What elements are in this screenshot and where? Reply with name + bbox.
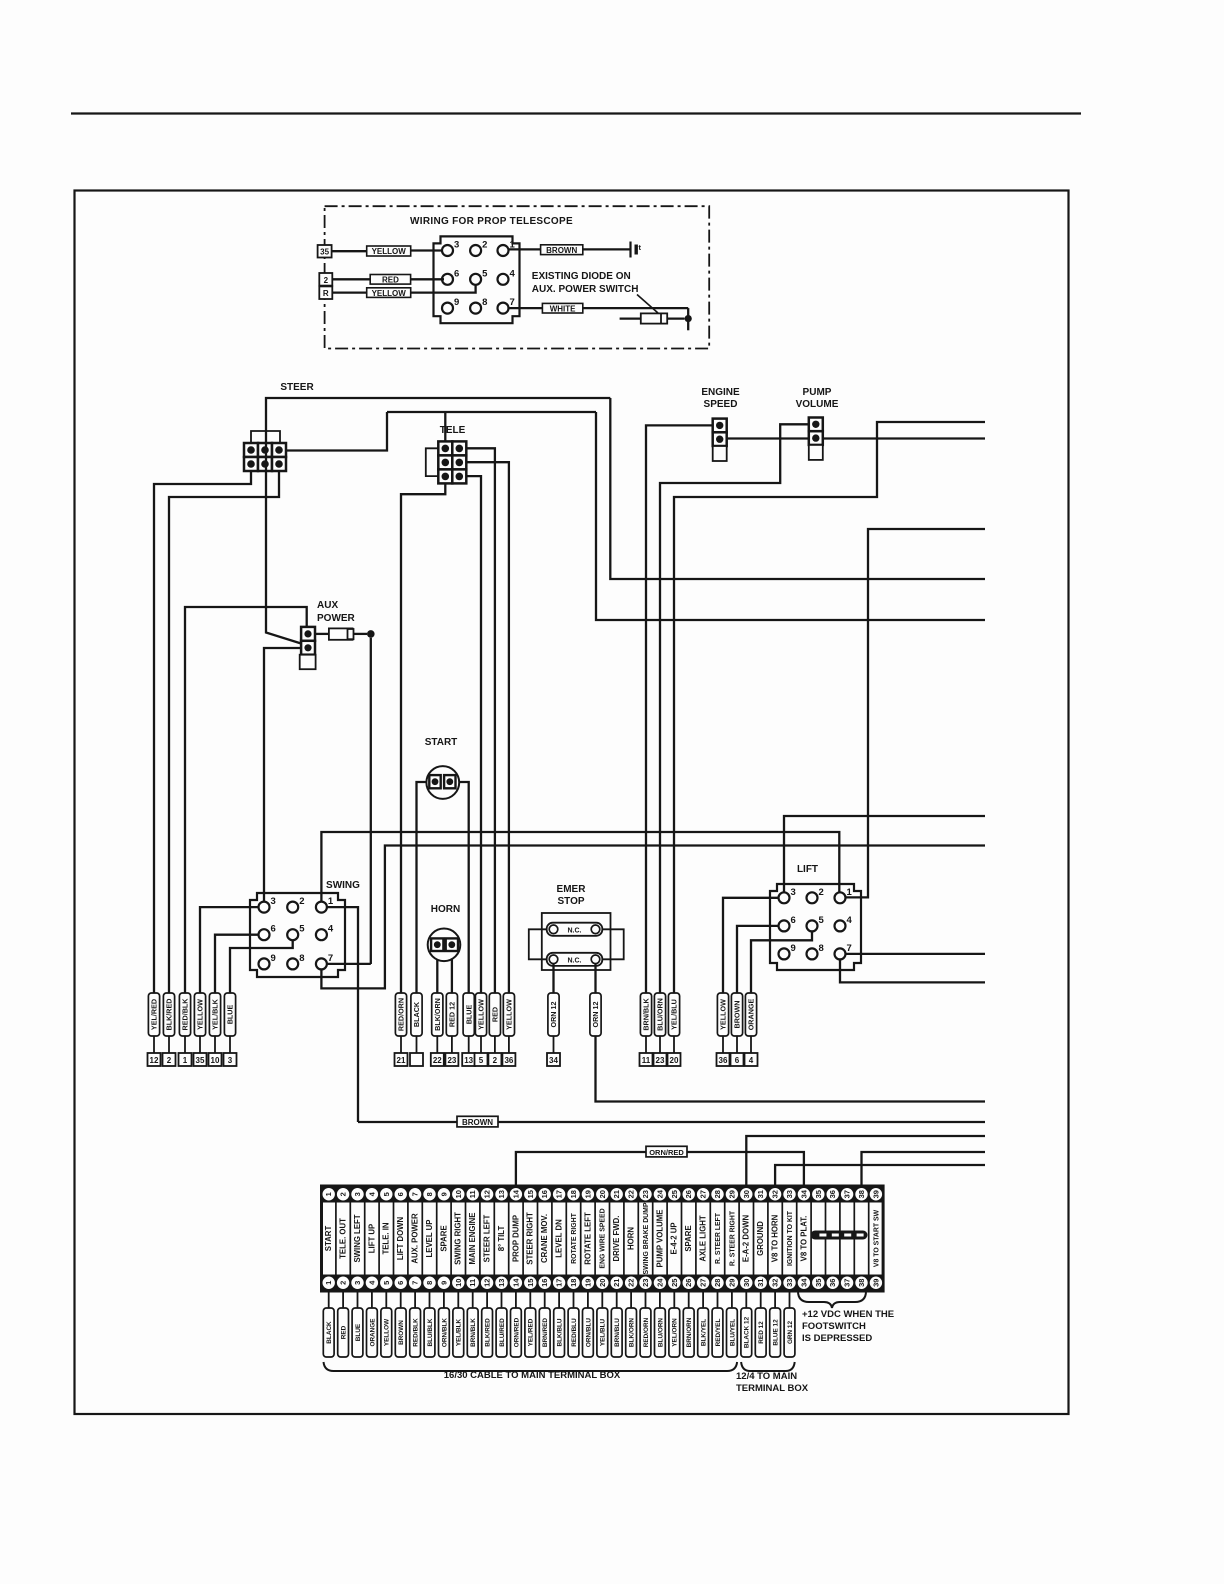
svg-text:22: 22	[433, 1056, 442, 1065]
svg-text:PROP DUMP: PROP DUMP	[511, 1215, 520, 1262]
svg-text:YELLOW: YELLOW	[196, 999, 205, 1030]
cable lead BLK/YEL (terminal 27)	[702, 1291, 704, 1308]
svg-text:33: 33	[785, 1279, 794, 1287]
svg-text:1: 1	[847, 887, 853, 898]
diode D1 (existing diode on aux power switch)	[620, 317, 685, 319]
cable lead BRN/RED (terminal 16)	[544, 1291, 546, 1308]
wire: terminal R to YELLOW label to pin 5	[332, 291, 366, 293]
svg-text:SPARE: SPARE	[684, 1225, 693, 1251]
svg-text:START: START	[324, 1226, 333, 1252]
svg-text:RED/BLK: RED/BLK	[181, 998, 190, 1031]
cable lead BLU/YEL (terminal 29)	[731, 1291, 733, 1308]
svg-text:SWING RIGHT: SWING RIGHT	[454, 1212, 463, 1265]
svg-text:BLK/RED: BLK/RED	[165, 999, 174, 1031]
jumper bracket over steer terminals	[251, 431, 280, 444]
wire label YELLOW	[367, 246, 411, 256]
cable lead YEL/RED (terminal 15)	[529, 1291, 531, 1308]
svg-text:CRANE MOV.: CRANE MOV.	[540, 1214, 549, 1263]
svg-text:ORN 12: ORN 12	[591, 1002, 600, 1028]
svg-text:13: 13	[464, 1056, 473, 1065]
wire: steer right terminal to riser x387 and top wire y412	[286, 412, 387, 451]
svg-text:11: 11	[468, 1190, 477, 1198]
cable lead BROWN (terminal 6)	[400, 1291, 402, 1308]
cable lead BLK/BLU (terminal 17)	[558, 1291, 560, 1308]
svg-text:21: 21	[612, 1190, 621, 1198]
wire: YEL/BLU drop up to y497, right, up at x877, right to edge	[674, 422, 985, 993]
svg-text:BLUE 12: BLUE 12	[773, 1319, 780, 1346]
svg-text:YEL/ORN: YEL/ORN	[672, 1318, 679, 1347]
svg-text:29: 29	[727, 1190, 736, 1198]
svg-text:BLU/ORN: BLU/ORN	[657, 1318, 664, 1347]
svg-text:ENG WIRE SPEED: ENG WIRE SPEED	[600, 1208, 607, 1268]
cable lead BLUE 12 (terminal 32)	[774, 1291, 776, 1308]
mid label RED at x494	[489, 993, 500, 1036]
cable lead GRN 12 (terminal 33)	[789, 1291, 791, 1308]
wire: steer bottom-right terminal down-left to BLK/RED drop	[169, 471, 279, 993]
brace: 16/30 cable group	[324, 1362, 738, 1371]
svg-text:RED: RED	[491, 1007, 500, 1022]
svg-text:BRN/BLK: BRN/BLK	[642, 998, 651, 1031]
svg-text:19: 19	[583, 1190, 592, 1198]
mid label BLACK at x416	[411, 993, 422, 1036]
svg-text:34: 34	[799, 1278, 808, 1287]
svg-text:14: 14	[511, 1189, 520, 1198]
wire BROWN feed y1122 to edge	[358, 1121, 985, 1123]
wire: lift pin 7 right to edge	[846, 953, 986, 955]
svg-text:35: 35	[814, 1190, 823, 1198]
svg-text:22: 22	[627, 1279, 636, 1287]
svg-text:IS DEPRESSED: IS DEPRESSED	[802, 1333, 872, 1344]
svg-text:20: 20	[598, 1190, 607, 1198]
svg-text:7: 7	[411, 1192, 420, 1196]
svg-text:RED/ORN: RED/ORN	[397, 998, 406, 1031]
svg-text:10: 10	[211, 1056, 220, 1065]
svg-text:7: 7	[510, 297, 515, 308]
svg-text:12: 12	[483, 1190, 492, 1198]
svg-text:E-A-2 DOWN: E-A-2 DOWN	[742, 1215, 751, 1263]
svg-text:AXLE LIGHT: AXLE LIGHT	[699, 1215, 708, 1262]
svg-text:AUX: AUX	[317, 600, 338, 611]
svg-text:GROUND: GROUND	[756, 1221, 765, 1256]
svg-text:2: 2	[324, 276, 329, 285]
svg-text:12: 12	[150, 1056, 159, 1065]
svg-text:BROWN: BROWN	[398, 1320, 405, 1345]
svg-text:31: 31	[756, 1279, 765, 1287]
svg-text:22: 22	[627, 1190, 636, 1198]
svg-text:STEER: STEER	[280, 382, 314, 393]
cable lead ORN/RED (terminal 14)	[515, 1291, 517, 1308]
cable lead ORN/BLU (terminal 19)	[587, 1291, 589, 1308]
svg-text:16/30 CABLE TO MAIN TERMINAL B: 16/30 CABLE TO MAIN TERMINAL BOX	[444, 1370, 621, 1381]
svg-text:23: 23	[641, 1190, 650, 1198]
svg-text:30: 30	[742, 1190, 751, 1198]
cable lead ORANGE (terminal 4)	[371, 1291, 373, 1308]
wire: y412 across to x596	[387, 411, 596, 413]
svg-text:7: 7	[411, 1281, 420, 1285]
svg-text:YELLOW: YELLOW	[505, 999, 514, 1030]
svg-text:18: 18	[569, 1190, 578, 1198]
svg-text:1: 1	[183, 1056, 188, 1065]
svg-text:TELE. OUT: TELE. OUT	[339, 1218, 348, 1259]
svg-text:BROWN: BROWN	[462, 1118, 493, 1127]
svg-text:BLACK: BLACK	[326, 1321, 333, 1344]
svg-text:8: 8	[482, 297, 487, 308]
svg-text:RED: RED	[382, 276, 399, 285]
svg-text:39: 39	[871, 1190, 880, 1198]
emer label ORN 12 at x595	[590, 993, 601, 1036]
svg-text:R. STEER LEFT: R. STEER LEFT	[715, 1212, 722, 1264]
steer/swing label YELLOW at x200	[194, 993, 205, 1036]
wire label WHITE	[542, 303, 582, 313]
lift label BROWN at x737	[731, 993, 742, 1036]
svg-text:6: 6	[396, 1281, 405, 1285]
swing connector J2	[250, 893, 345, 977]
jumper bar across terminals 35-38	[811, 1231, 868, 1240]
svg-text:8° TILT: 8° TILT	[497, 1226, 506, 1252]
wire: swing pin 3 left to YELLOW drop	[200, 907, 259, 993]
terminal 2	[319, 273, 332, 286]
wire: swing pin 5 down-left to BLUE drop	[230, 940, 293, 993]
svg-text:ROTATE RIGHT: ROTATE RIGHT	[571, 1212, 578, 1263]
svg-text:AUX. POWER: AUX. POWER	[411, 1213, 420, 1264]
wire: tele R3 right then down to YELLOW drop	[466, 476, 481, 993]
svg-text:1: 1	[328, 896, 334, 907]
svg-text:RED 12: RED 12	[758, 1321, 765, 1344]
wire: pin 1 to BROWN label to ground	[509, 248, 541, 250]
emer stop N.C. contact 1	[547, 923, 603, 936]
wire: RED/BLK drop up to y607 right to aux power top terminal	[185, 607, 307, 993]
wire stub: y412 wire down to tele top	[444, 412, 446, 441]
svg-text:ORN/BLU: ORN/BLU	[585, 1318, 592, 1347]
pump volume switch PV1	[809, 418, 823, 432]
svg-text:SWING BRAKE DUMP: SWING BRAKE DUMP	[643, 1202, 650, 1274]
cable lead RED 12 (terminal 31)	[760, 1291, 762, 1308]
wire: emer stop lower-left contact down to ORN 12 label and terminal 34	[552, 964, 554, 993]
svg-text:2: 2	[819, 887, 824, 898]
svg-text:TELE: TELE	[440, 425, 466, 436]
cable lead BLU/RED (terminal 13)	[501, 1291, 503, 1308]
svg-text:BRN/BLU: BRN/BLU	[614, 1318, 621, 1347]
brace: 12/4 cable group	[741, 1362, 795, 1371]
svg-text:8: 8	[299, 953, 304, 964]
svg-text:BLU/RED: BLU/RED	[499, 1318, 506, 1347]
cable lead BRN/ORN (terminal 26)	[688, 1291, 690, 1308]
svg-text:POWER: POWER	[317, 613, 356, 624]
svg-text:3: 3	[271, 896, 276, 907]
steer/swing label RED/BLK at x185	[179, 993, 190, 1036]
svg-text:36: 36	[828, 1279, 837, 1287]
svg-text:6: 6	[396, 1192, 405, 1196]
svg-text:1: 1	[324, 1281, 333, 1285]
engine/pump label BLU/ORN at x660	[654, 993, 665, 1036]
svg-text:YEL/BLU: YEL/BLU	[600, 1318, 607, 1346]
svg-text:3: 3	[353, 1192, 362, 1196]
svg-text:9: 9	[454, 297, 459, 308]
cable lead BRN/BLK (terminal 11)	[472, 1291, 474, 1308]
cable lead RED/ORN (terminal 23)	[645, 1291, 647, 1308]
cable lead BLU/BLK (terminal 8)	[429, 1291, 431, 1308]
terminal strip TB1 (main)	[322, 1186, 884, 1291]
svg-text:YEL/RED: YEL/RED	[528, 1318, 535, 1346]
cable lead BLK/ORN (terminal 22)	[630, 1291, 632, 1308]
wire: terminal 35 to YELLOW label to pin 3	[332, 250, 367, 252]
svg-text:19: 19	[583, 1279, 592, 1287]
svg-text:RED/BLU: RED/BLU	[571, 1318, 578, 1347]
svg-text:R. STEER RIGHT: R. STEER RIGHT	[729, 1210, 736, 1266]
svg-text:6: 6	[735, 1056, 740, 1065]
svg-text:2: 2	[339, 1281, 348, 1285]
wire: swing pin 7 loop down-right-up joining long feed to edge	[321, 846, 985, 989]
svg-text:YEL/BLU: YEL/BLU	[670, 999, 679, 1030]
svg-text:2: 2	[493, 1056, 498, 1065]
terminal R	[319, 286, 332, 299]
wire label YELLOW (R)	[367, 288, 411, 298]
svg-text:V8 TO PLAT.: V8 TO PLAT.	[799, 1216, 808, 1262]
svg-text:34: 34	[549, 1056, 558, 1065]
svg-text:27: 27	[699, 1279, 708, 1287]
svg-text:ROTATE LEFT: ROTATE LEFT	[583, 1212, 592, 1265]
svg-text:BRN/ORN: BRN/ORN	[686, 1317, 693, 1347]
wire: lift pin 3 left to YELLOW drop	[723, 898, 778, 993]
fuse F1 on aux power	[315, 633, 329, 635]
svg-text:10: 10	[454, 1279, 463, 1287]
cable lead YEL/ORN (terminal 25)	[673, 1291, 675, 1308]
wire: swing pin 6 left to YEL/BLK drop	[215, 935, 259, 993]
svg-text:RED 12: RED 12	[448, 1002, 457, 1027]
svg-text:ORN/RED: ORN/RED	[513, 1317, 520, 1347]
svg-text:PUMP: PUMP	[803, 387, 832, 398]
wire: tele bracket down, left, down to RED/ORN drop	[401, 483, 445, 993]
engine/pump label YEL/BLU at x674	[668, 993, 679, 1036]
svg-text:9: 9	[439, 1281, 448, 1285]
svg-text:BLACK 12: BLACK 12	[744, 1316, 751, 1348]
svg-text:15: 15	[526, 1190, 535, 1198]
svg-text:YELLOW: YELLOW	[384, 1318, 391, 1346]
svg-text:BLU/YEL: BLU/YEL	[729, 1319, 736, 1346]
steer/swing label BLK/RED at x169	[163, 993, 174, 1036]
svg-text:BLK/ORN: BLK/ORN	[629, 1318, 636, 1347]
cable lead BLU/ORN (terminal 24)	[659, 1291, 661, 1308]
svg-text:YEL/BLK: YEL/BLK	[456, 1318, 463, 1346]
svg-text:BLUE: BLUE	[226, 1005, 235, 1025]
svg-text:10: 10	[454, 1190, 463, 1198]
svg-text:28: 28	[713, 1279, 722, 1287]
svg-text:STEER RIGHT: STEER RIGHT	[526, 1212, 535, 1265]
svg-text:27: 27	[699, 1190, 708, 1198]
svg-text:34: 34	[799, 1189, 808, 1198]
svg-text:START: START	[425, 737, 458, 748]
svg-text:V8 TO START SW: V8 TO START SW	[873, 1209, 880, 1267]
wire: swing pin 7 right to aux junction riser	[327, 963, 371, 965]
svg-text:32: 32	[771, 1279, 780, 1287]
svg-text:SPARE: SPARE	[439, 1225, 448, 1251]
mid label BLK/ORN at x437	[432, 993, 443, 1036]
svg-text:E-4-2 UP: E-4-2 UP	[670, 1222, 679, 1254]
wire: steer mid terminal up, across top to x610	[266, 398, 610, 443]
svg-text:BLU/BLK: BLU/BLK	[427, 1318, 434, 1346]
connector U1 (prop telescope switch)	[434, 236, 520, 323]
svg-text:RED: RED	[341, 1325, 348, 1339]
wire: lift pin 5 down-left to ORANGE drop	[751, 931, 812, 993]
svg-text:15: 15	[526, 1279, 535, 1287]
svg-text:30: 30	[742, 1279, 751, 1287]
svg-text:3: 3	[353, 1281, 362, 1285]
svg-text:+12 VDC WHEN THE: +12 VDC WHEN THE	[802, 1309, 894, 1320]
svg-text:BLUE: BLUE	[355, 1323, 362, 1341]
svg-text:YELLOW: YELLOW	[719, 999, 728, 1030]
svg-text:YEL/BLK: YEL/BLK	[211, 998, 220, 1030]
wire: steer bottom-left terminal down-left to YEL/RED drop	[154, 471, 251, 993]
svg-text:11: 11	[642, 1056, 651, 1065]
svg-text:25: 25	[670, 1190, 679, 1198]
svg-text:4: 4	[510, 268, 516, 279]
wire label BROWN	[541, 245, 583, 255]
wire: terminal 38 up to y1152 right to edge	[862, 1152, 986, 1186]
svg-text:MAIN ENGINE: MAIN ENGINE	[468, 1213, 477, 1265]
svg-text:14: 14	[511, 1278, 520, 1287]
svg-text:HORN: HORN	[627, 1227, 636, 1250]
svg-text:37: 37	[843, 1279, 852, 1287]
svg-text:WHITE: WHITE	[550, 304, 576, 313]
wire: x610 down to y579 then right to edge	[610, 398, 985, 579]
junction dot on aux power feed	[367, 630, 375, 638]
mid label RED 12 at x451	[446, 993, 457, 1036]
svg-text:9: 9	[791, 943, 796, 954]
wire: start right terminal to BLUE drop	[456, 782, 469, 993]
svg-text:R: R	[323, 289, 329, 298]
svg-text:8: 8	[425, 1192, 434, 1196]
svg-text:24: 24	[655, 1278, 664, 1287]
bracket under terminals 35-38 (+12 VDC note)	[798, 1291, 866, 1308]
svg-text:1: 1	[324, 1192, 333, 1196]
svg-text:IGNITION TO KIT: IGNITION TO KIT	[787, 1210, 794, 1266]
junction dot at diode output	[685, 315, 692, 322]
svg-text:V8 TO HORN: V8 TO HORN	[771, 1214, 780, 1262]
page top rule	[71, 112, 1081, 114]
svg-text:16: 16	[540, 1190, 549, 1198]
svg-text:4: 4	[328, 924, 334, 935]
svg-text:37: 37	[843, 1190, 852, 1198]
wire: horn left terminal down to BLK/ORN drop	[436, 951, 438, 993]
svg-text:9: 9	[439, 1192, 448, 1196]
wire: pump volume top terminal left, down, left, down to BLU/ORN drop	[660, 424, 809, 993]
horn button S2	[428, 929, 461, 962]
svg-text:7: 7	[847, 943, 852, 954]
steer/swing label YEL/RED at x154	[148, 993, 159, 1036]
wire: horn right terminal down to RED 12 drop	[451, 951, 453, 993]
svg-text:2: 2	[482, 240, 487, 251]
svg-text:BROWN: BROWN	[546, 246, 577, 255]
svg-text:RED/ORN: RED/ORN	[643, 1317, 650, 1347]
svg-text:STEER LEFT: STEER LEFT	[483, 1214, 492, 1262]
cable lead YEL/BLK (terminal 10)	[457, 1291, 459, 1308]
svg-text:PUMP VOLUME: PUMP VOLUME	[655, 1210, 664, 1268]
svg-text:6: 6	[791, 915, 796, 926]
wire: aux power lower terminal left to x264 down to swing pin 3	[264, 648, 301, 902]
svg-text:SPEED: SPEED	[704, 399, 738, 410]
wire: tele R1 right then down to RED drop	[466, 448, 495, 993]
svg-text:FOOTSWITCH: FOOTSWITCH	[802, 1321, 866, 1332]
lift label ORANGE at x751	[745, 993, 756, 1036]
svg-text:23: 23	[656, 1056, 665, 1065]
wire: emer stop lower-right contact down to y1101 then right to edge	[596, 964, 986, 1102]
svg-text:ORN 12: ORN 12	[549, 1002, 558, 1028]
cable lead BRN/BLU (terminal 21)	[616, 1291, 618, 1308]
svg-text:32: 32	[771, 1190, 780, 1198]
wire label BROWN (feed)	[457, 1116, 498, 1127]
svg-text:RED/YEL: RED/YEL	[715, 1319, 722, 1347]
mid label YELLOW at x508	[503, 993, 514, 1036]
svg-text:LIFT UP: LIFT UP	[367, 1224, 376, 1253]
wire: lift pin 7 down then right to edge	[840, 959, 985, 982]
svg-text:BRN/RED: BRN/RED	[542, 1318, 549, 1347]
mid label RED/ORN at x401	[395, 993, 406, 1036]
wire: aux power dot down to swing pin 7 branch	[370, 638, 372, 964]
svg-text:2: 2	[339, 1192, 348, 1196]
svg-text:ORANGE: ORANGE	[747, 999, 756, 1031]
svg-text:26: 26	[684, 1279, 693, 1287]
svg-text:29: 29	[727, 1279, 736, 1287]
mid label YELLOW at x481	[475, 993, 486, 1036]
svg-text:9: 9	[271, 953, 276, 964]
svg-text:17: 17	[555, 1190, 564, 1198]
jumper bracket left of tele block	[426, 448, 439, 476]
start switch S1	[426, 766, 459, 799]
cable lead YELLOW (terminal 5)	[385, 1291, 387, 1308]
svg-text:16: 16	[540, 1279, 549, 1287]
svg-text:20: 20	[670, 1056, 679, 1065]
svg-text:8: 8	[425, 1281, 434, 1285]
svg-text:SWING: SWING	[326, 880, 360, 891]
wire: terminal 30 up to y1136 right to edge	[746, 1136, 985, 1186]
svg-text:12/4 TO MAIN: 12/4 TO MAIN	[736, 1371, 797, 1382]
emer stop right jumper bracket	[600, 929, 624, 959]
svg-text:YELLOW: YELLOW	[477, 999, 486, 1030]
svg-text:BLK/YEL: BLK/YEL	[701, 1319, 708, 1346]
svg-text:YELLOW: YELLOW	[372, 247, 407, 256]
cable lead RED (terminal 2)	[342, 1291, 344, 1308]
cable lead RED/YEL (terminal 28)	[717, 1291, 719, 1308]
svg-text:24: 24	[655, 1189, 664, 1198]
cable lead BLK/RED (terminal 12)	[486, 1291, 488, 1308]
svg-text:7: 7	[328, 953, 333, 964]
svg-text:36: 36	[504, 1056, 513, 1065]
svg-text:26: 26	[684, 1190, 693, 1198]
svg-text:36: 36	[719, 1056, 728, 1065]
svg-text:35: 35	[196, 1056, 205, 1065]
mid label BLUE at x468	[463, 993, 474, 1036]
svg-text:VOLUME: VOLUME	[796, 399, 839, 410]
svg-text:23: 23	[447, 1056, 456, 1065]
svg-text:38: 38	[857, 1279, 866, 1287]
svg-text:SWING LEFT: SWING LEFT	[353, 1214, 362, 1262]
cable lead BLACK 12 (terminal 30)	[745, 1291, 747, 1308]
svg-text:5: 5	[819, 915, 825, 926]
steer/swing label BLUE at x230	[224, 993, 235, 1036]
svg-text:BLACK: BLACK	[412, 1001, 421, 1027]
svg-text:21: 21	[397, 1056, 406, 1065]
engine speed switch ES1	[713, 419, 727, 433]
emer stop N.C. contact 2	[547, 953, 603, 966]
svg-text:25: 25	[670, 1279, 679, 1287]
wire: lift pin 6 left to BROWN drop	[737, 926, 778, 993]
svg-text:STOP: STOP	[557, 896, 584, 907]
emer stop switch body	[542, 913, 611, 970]
wire: terminal 14 up to y1152 across to terminal 34	[516, 1152, 804, 1186]
lift label YELLOW at x723	[717, 993, 728, 1036]
svg-text:2: 2	[299, 896, 304, 907]
cable lead YEL/BLU (terminal 20)	[601, 1291, 603, 1308]
